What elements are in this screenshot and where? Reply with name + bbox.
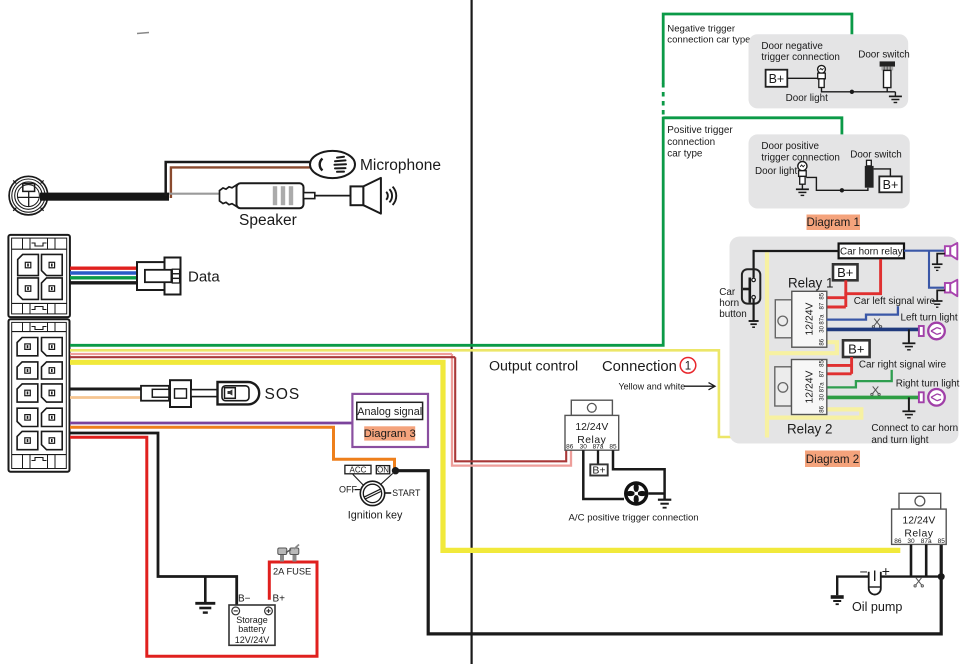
scissors mark (oil pump) <box>914 578 923 587</box>
svg-text:Yellow and white: Yellow and white <box>619 382 686 392</box>
svg-text:horn: horn <box>719 298 739 309</box>
svg-text:Speaker: Speaker <box>239 212 297 229</box>
svg-text:Diagram 1: Diagram 1 <box>806 216 859 229</box>
wire: data blue <box>70 271 138 274</box>
ground: left turn light <box>902 329 915 349</box>
wire: data green <box>70 276 138 279</box>
wire: oil pump bus left to ground <box>837 577 868 596</box>
fuse F1 2A <box>278 545 299 562</box>
wire: brown mic wire <box>171 167 311 198</box>
connector CN1 top pins 1-4 <box>18 254 63 299</box>
svg-text:Ignition key: Ignition key <box>348 510 403 522</box>
relay K3 (Relay 2) <box>775 360 827 415</box>
wire: green positive trigger branch <box>663 118 842 190</box>
svg-text:Relay 1: Relay 1 <box>788 276 833 291</box>
label: B- terminal <box>238 593 251 604</box>
svg-text:B+: B+ <box>592 465 605 477</box>
wire: yellow feed inside diagram 2 <box>767 252 861 437</box>
label: Oil pump <box>852 600 902 614</box>
scissors mark (left signal) <box>872 319 881 328</box>
svg-text:87a: 87a <box>921 538 932 545</box>
svg-text:12/24V: 12/24V <box>575 422 608 433</box>
svg-text:Analog signal: Analog signal <box>357 406 422 418</box>
svg-text:30: 30 <box>907 538 915 545</box>
svg-text:B+: B+ <box>848 341 864 356</box>
svg-text:85: 85 <box>820 292 826 299</box>
ground: right turn light <box>902 397 915 417</box>
svg-text:30: 30 <box>580 444 588 451</box>
svg-text:86: 86 <box>820 405 826 412</box>
label: Speaker <box>239 212 297 229</box>
label: A/C positive trigger connection <box>569 513 699 524</box>
svg-text:Door light: Door light <box>786 93 829 104</box>
svg-text:Diagram 3: Diagram 3 <box>364 428 416 440</box>
wire: fan to ground link <box>648 492 664 495</box>
wire: black mic wire <box>166 162 311 196</box>
svg-text:SOS: SOS <box>265 386 301 403</box>
label: Car horn button <box>719 287 746 320</box>
speaker SPK1 <box>351 178 397 214</box>
svg-text:B−: B− <box>238 593 251 604</box>
label: 2A FUSE <box>273 566 311 576</box>
wire: blue horn speaker feed <box>904 251 945 288</box>
switch: SOS button <box>218 382 260 404</box>
wire: green dashed link <box>662 84 665 115</box>
ground: door light (positive) <box>796 184 809 195</box>
svg-text:button: button <box>719 309 746 320</box>
wire: green right signal stub <box>827 370 892 388</box>
svg-text:Relay 2: Relay 2 <box>787 422 832 437</box>
svg-text:Door switch: Door switch <box>850 150 902 161</box>
svg-text:Door light: Door light <box>755 166 798 177</box>
svg-text:12V/24V: 12V/24V <box>235 635 270 645</box>
relay K1 (A/C output 12/24V) <box>565 400 619 450</box>
diagram 2 gray panel <box>730 237 959 444</box>
svg-text:Right turn light: Right turn light <box>896 379 960 390</box>
label: Diagram 1 <box>806 215 860 231</box>
connector P1: round GPS plug <box>9 176 48 215</box>
svg-text:+: + <box>882 563 890 579</box>
connector CN1 bottom pins 1-10 <box>17 338 62 450</box>
svg-text:87a: 87a <box>593 444 604 451</box>
label: Door light (positive) <box>755 166 798 177</box>
svg-text:87: 87 <box>820 302 826 309</box>
label: SOS <box>265 386 301 403</box>
svg-text:connection: connection <box>667 137 715 148</box>
svg-text:connection car type: connection car type <box>667 35 750 46</box>
svg-text:and turn light: and turn light <box>871 435 928 446</box>
node: pin85 junction <box>938 573 945 580</box>
svg-text:−: − <box>860 564 868 580</box>
svg-text:Door positive: Door positive <box>761 141 819 152</box>
svg-text:Microphone: Microphone <box>360 157 441 174</box>
svg-text:B+: B+ <box>837 265 853 280</box>
wire: green negative trigger branch <box>663 14 852 92</box>
wire: car horn relay to button <box>754 251 839 278</box>
wire: red relay 1 feeds <box>827 259 882 307</box>
label: Right turn light <box>896 379 960 390</box>
svg-text:87a: 87a <box>820 382 826 393</box>
label: Car right signal wire <box>859 360 947 371</box>
wire: data red <box>70 267 138 270</box>
ground: oil pump <box>831 595 844 604</box>
svg-text:Negative trigger: Negative trigger <box>667 24 736 35</box>
label: Relay 1 <box>788 276 833 291</box>
svg-text:12/24V: 12/24V <box>805 302 816 335</box>
label: Relay 2 <box>787 422 832 437</box>
node: green junction (positive) <box>840 188 844 192</box>
oil pump symbol <box>860 563 890 595</box>
wire: gray speaker wire <box>169 193 220 195</box>
svg-text:Oil pump: Oil pump <box>852 600 902 614</box>
wire: relay K4 pin30 drop <box>910 544 913 576</box>
B+ box (relay 1) <box>833 264 858 280</box>
label: Output control <box>489 359 578 375</box>
connector CN1 bottom section (2x5) <box>9 319 70 472</box>
B+ box (relay 2) <box>843 340 870 357</box>
label: Door switch (negative) <box>858 50 910 61</box>
label: B+ terminal <box>273 593 286 604</box>
wire: dark red output <box>70 357 566 461</box>
svg-text:Data: Data <box>188 269 220 286</box>
wire: speaker lead <box>315 195 351 197</box>
label: Door positive trigger connection <box>761 141 840 163</box>
ground: battery negative <box>195 577 215 613</box>
svg-text:car type: car type <box>667 148 703 159</box>
wire: green main <box>70 117 663 346</box>
label: Diagram 2 <box>805 451 860 468</box>
label: Car left signal wire <box>854 296 936 307</box>
svg-text:Left turn light: Left turn light <box>901 313 958 324</box>
label: Door light (negative) <box>786 93 829 104</box>
svg-text:Car horn relay: Car horn relay <box>840 247 903 258</box>
microphone MIC1 <box>310 151 355 178</box>
node: ignition ON junction <box>392 467 399 474</box>
ground: door switch (negative) <box>889 92 902 103</box>
lamp: right turn light <box>919 389 945 406</box>
wire: blue left signal stub <box>827 306 898 319</box>
svg-text:87a: 87a <box>820 314 826 325</box>
ground: horn speaker 2 <box>932 290 945 307</box>
wire: door light to switch (negative) <box>822 88 896 92</box>
lamp: door light (positive) <box>798 162 807 185</box>
svg-text:A/C positive trigger connectio: A/C positive trigger connection <box>569 513 699 524</box>
node: green junction (negative) <box>850 90 854 94</box>
wire: black ignition to oil pump relay <box>398 471 941 634</box>
wire: B+ to door light <box>787 77 817 79</box>
wire: red relay 2 feeds <box>827 357 852 374</box>
svg-text:86: 86 <box>894 538 902 545</box>
wire: red battery loop <box>70 437 317 656</box>
svg-text:START: START <box>392 488 421 498</box>
connector CN1 top section (2x2) <box>8 235 70 317</box>
svg-text:Car right signal wire: Car right signal wire <box>859 360 947 371</box>
svg-text:1: 1 <box>685 361 691 373</box>
switch: door switch plunger (positive) <box>865 160 874 187</box>
svg-text:Output control: Output control <box>489 359 578 375</box>
svg-text:87: 87 <box>820 370 826 377</box>
svg-text:Door switch: Door switch <box>858 50 910 61</box>
battery BT1 <box>229 605 275 645</box>
wire: thick black audio cable <box>40 193 169 201</box>
svg-text:B+: B+ <box>883 178 899 192</box>
svg-text:12/24V: 12/24V <box>805 370 816 403</box>
diagram 1 positive trigger gray panel <box>749 134 910 208</box>
svg-text:Door negative: Door negative <box>761 41 823 52</box>
wire: pale yellow signal <box>70 350 767 437</box>
wire: vertical divider line <box>471 0 473 664</box>
svg-text:B+: B+ <box>769 72 785 86</box>
svg-text:B+: B+ <box>273 593 286 604</box>
label: Data <box>188 269 220 286</box>
wire: relay K1 pin87a to B+ <box>597 450 599 464</box>
scissors mark (right signal) <box>871 386 880 395</box>
A/C fan symbol <box>624 481 648 505</box>
svg-text:85: 85 <box>609 444 617 451</box>
lamp: door light (negative) <box>818 65 826 87</box>
analog signal box / Diagram 3 <box>352 394 428 447</box>
svg-text:Positive trigger: Positive trigger <box>667 125 733 136</box>
switch: door switch plunger (negative) <box>880 61 895 91</box>
wire: peach SOS wire <box>70 396 152 399</box>
box: Car horn relay <box>839 244 904 259</box>
svg-text:Car: Car <box>719 287 736 298</box>
wire: purple analog <box>70 422 352 425</box>
wire: black ground wire <box>70 433 237 605</box>
svg-text:ACC: ACC <box>350 465 367 474</box>
svg-text:86: 86 <box>566 444 574 451</box>
horn speaker 2 <box>945 280 957 296</box>
label: Microphone <box>360 157 441 174</box>
svg-text:86: 86 <box>820 338 826 345</box>
wire: relay K1 pin85 to ground <box>613 450 665 499</box>
switch: car horn button <box>742 269 760 303</box>
svg-text:Car left signal wire: Car left signal wire <box>854 296 936 307</box>
label: Yellow and white <box>619 382 716 392</box>
lamp: left turn light <box>919 323 945 340</box>
ground: car horn button <box>749 321 759 327</box>
ignition key switch <box>339 465 421 521</box>
svg-text:30: 30 <box>820 325 826 332</box>
wire: oil pump bus right <box>881 575 941 577</box>
B+ box (positive trigger) <box>879 176 901 192</box>
diagram 1 negative trigger gray panel <box>749 34 909 108</box>
connector: SOS inline plug <box>141 380 218 407</box>
wire: thick yellow output <box>70 362 900 550</box>
wire: orange ACC <box>70 427 395 470</box>
wire: relay K4 pin87a drop <box>925 544 928 576</box>
svg-text:Connection: Connection <box>602 359 677 375</box>
label: Connection 1 <box>602 358 696 375</box>
ground: A/C relay <box>658 500 671 508</box>
connector: Data plug <box>137 258 181 295</box>
label: Positive trigger connection car type <box>667 125 733 159</box>
wire: green right turn feed <box>827 396 919 400</box>
label: Door negative trigger connection <box>761 41 840 63</box>
wire: data black <box>70 281 138 284</box>
svg-text:85: 85 <box>820 360 826 367</box>
wire: horn button to ground <box>752 299 754 321</box>
label: Left turn light <box>901 313 958 324</box>
svg-text:trigger connection: trigger connection <box>761 52 840 63</box>
decorative small dash top-left <box>137 33 149 34</box>
svg-text:Diagram 2: Diagram 2 <box>806 453 859 466</box>
svg-text:85: 85 <box>938 538 946 545</box>
svg-text:Connect to car horn: Connect to car horn <box>871 423 958 434</box>
wire: door light to switch (positive) <box>806 177 868 190</box>
relay K2 (Relay 1) <box>775 291 827 347</box>
label: Door switch (positive) <box>850 150 902 161</box>
svg-text:2A FUSE: 2A FUSE <box>273 566 311 576</box>
B+ box (negative trigger) <box>766 70 788 87</box>
wire: door switch to B+ (positive) <box>874 169 891 177</box>
speaker plug J1 <box>220 183 315 208</box>
horn speaker 1 <box>945 243 957 259</box>
label: Connect to car horn and turn light <box>871 423 958 446</box>
svg-text:12/24V: 12/24V <box>902 516 935 527</box>
wire: black SOS wire <box>70 388 142 391</box>
B+ box (A/C relay) <box>590 464 607 476</box>
label: Negative trigger connection car type <box>667 24 750 46</box>
svg-text:30: 30 <box>820 393 826 400</box>
wire: relay K1 pin30 to A/C <box>583 450 624 499</box>
wire: salmon output <box>70 354 571 466</box>
svg-text:OFF: OFF <box>339 485 357 495</box>
ground: horn speaker 1 <box>932 254 945 271</box>
svg-text:battery: battery <box>238 624 266 634</box>
svg-text:ON: ON <box>377 465 389 474</box>
wire: navy left turn feed <box>827 328 919 332</box>
relay K4 (oil pump 12/24V) <box>892 493 947 545</box>
